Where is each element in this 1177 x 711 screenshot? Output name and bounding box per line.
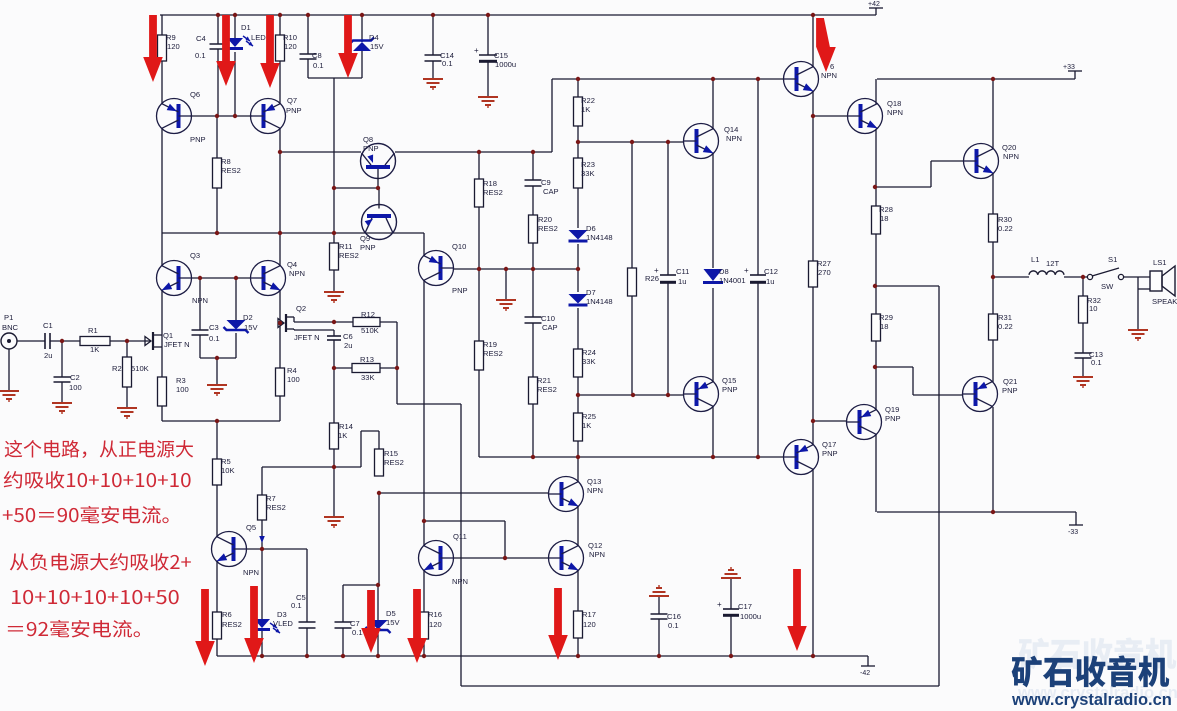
svg-text:C3: C3 bbox=[209, 323, 219, 332]
svg-text:Q3: Q3 bbox=[190, 251, 200, 260]
svg-text:33K: 33K bbox=[581, 169, 595, 178]
svg-text:1N4148: 1N4148 bbox=[586, 233, 613, 242]
svg-text:LS1: LS1 bbox=[1153, 258, 1167, 267]
svg-text:R1: R1 bbox=[88, 326, 98, 335]
svg-text:PNP: PNP bbox=[885, 414, 901, 423]
svg-text:C11: C11 bbox=[676, 267, 689, 276]
svg-text:Q13: Q13 bbox=[587, 477, 601, 486]
svg-text:PNP: PNP bbox=[452, 286, 468, 295]
svg-text:R10: R10 bbox=[283, 33, 297, 42]
svg-text:C4: C4 bbox=[196, 34, 206, 43]
svg-text:Q7: Q7 bbox=[287, 96, 297, 105]
svg-text:15V: 15V bbox=[386, 618, 400, 627]
svg-text:R24: R24 bbox=[582, 348, 596, 357]
svg-text:Q17: Q17 bbox=[822, 440, 836, 449]
svg-text:Q6: Q6 bbox=[190, 90, 200, 99]
svg-text:Q18: Q18 bbox=[887, 99, 901, 108]
svg-text:120: 120 bbox=[167, 42, 180, 51]
svg-text:C10: C10 bbox=[541, 314, 555, 323]
svg-text:Q10: Q10 bbox=[452, 242, 466, 251]
svg-text:D5: D5 bbox=[386, 609, 396, 618]
svg-text:RES2: RES2 bbox=[221, 166, 241, 175]
svg-text:VLED: VLED bbox=[273, 619, 293, 628]
svg-text:C8: C8 bbox=[312, 51, 322, 60]
svg-text:R18: R18 bbox=[483, 179, 497, 188]
svg-text:RES2: RES2 bbox=[483, 349, 503, 358]
svg-text:Q19: Q19 bbox=[885, 405, 899, 414]
svg-text:10K: 10K bbox=[221, 466, 235, 475]
svg-text:P1: P1 bbox=[4, 313, 13, 322]
svg-text:33K: 33K bbox=[361, 373, 375, 382]
svg-text:270: 270 bbox=[818, 268, 831, 277]
svg-text:NPN: NPN bbox=[587, 486, 603, 495]
svg-text:1N4001: 1N4001 bbox=[719, 276, 746, 285]
svg-text:+: + bbox=[717, 600, 722, 609]
svg-text:D3: D3 bbox=[277, 610, 287, 619]
svg-text:R19: R19 bbox=[483, 340, 497, 349]
svg-text:15V: 15V bbox=[244, 323, 258, 332]
svg-text:RES2: RES2 bbox=[339, 251, 359, 260]
svg-text:Q5: Q5 bbox=[246, 523, 256, 532]
svg-text:R7: R7 bbox=[266, 494, 276, 503]
svg-text:6: 6 bbox=[830, 62, 834, 71]
svg-text:NPN: NPN bbox=[452, 577, 468, 586]
svg-text:-42: -42 bbox=[860, 670, 870, 677]
svg-text:120: 120 bbox=[284, 42, 297, 51]
svg-text:CAP: CAP bbox=[543, 187, 559, 196]
svg-text:R26: R26 bbox=[645, 274, 659, 283]
svg-text:2u: 2u bbox=[44, 351, 52, 360]
svg-text:RES2: RES2 bbox=[222, 620, 242, 629]
svg-text:C15: C15 bbox=[494, 51, 508, 60]
svg-text:1K: 1K bbox=[338, 431, 347, 440]
svg-text:JFET N: JFET N bbox=[164, 340, 190, 349]
svg-text:R14: R14 bbox=[339, 422, 353, 431]
svg-text:R22: R22 bbox=[581, 96, 595, 105]
svg-text:R6: R6 bbox=[222, 610, 232, 619]
svg-text:0.1: 0.1 bbox=[442, 59, 453, 68]
svg-text:NPN: NPN bbox=[192, 296, 208, 305]
svg-text:33K: 33K bbox=[582, 357, 596, 366]
svg-text:NPN: NPN bbox=[1003, 152, 1019, 161]
svg-text:0.1: 0.1 bbox=[291, 601, 302, 610]
svg-text:NPN: NPN bbox=[726, 134, 742, 143]
svg-text:R23: R23 bbox=[581, 160, 595, 169]
svg-text:RES2: RES2 bbox=[266, 503, 286, 512]
svg-text:NPN: NPN bbox=[589, 550, 605, 559]
svg-text:0.22: 0.22 bbox=[998, 224, 1013, 233]
svg-text:R29: R29 bbox=[879, 313, 893, 322]
svg-text:BNC: BNC bbox=[2, 323, 19, 332]
svg-text:C17: C17 bbox=[738, 602, 752, 611]
svg-text:R8: R8 bbox=[221, 157, 231, 166]
svg-text:PNP: PNP bbox=[286, 106, 302, 115]
svg-text:R30: R30 bbox=[998, 215, 1012, 224]
svg-text:R25: R25 bbox=[582, 412, 596, 421]
svg-text:C2: C2 bbox=[70, 373, 80, 382]
svg-text:D6: D6 bbox=[586, 224, 596, 233]
svg-text:12T: 12T bbox=[1046, 259, 1059, 268]
svg-text:R15: R15 bbox=[384, 449, 398, 458]
svg-text:R4: R4 bbox=[287, 366, 297, 375]
svg-text:D4: D4 bbox=[369, 33, 379, 42]
svg-text:RES2: RES2 bbox=[384, 458, 404, 467]
svg-text:1u: 1u bbox=[678, 277, 686, 286]
svg-text:D2: D2 bbox=[243, 313, 253, 322]
svg-text:PNP: PNP bbox=[190, 135, 206, 144]
svg-text:+42: +42 bbox=[868, 1, 880, 8]
svg-text:Q20: Q20 bbox=[1002, 143, 1016, 152]
svg-text:510K: 510K bbox=[131, 364, 149, 373]
svg-text:R17: R17 bbox=[582, 610, 596, 619]
svg-text:PNP: PNP bbox=[722, 385, 738, 394]
svg-text:1u: 1u bbox=[766, 277, 774, 286]
svg-text:R13: R13 bbox=[360, 355, 374, 364]
svg-text:510K: 510K bbox=[361, 326, 379, 335]
svg-text:Q12: Q12 bbox=[588, 541, 602, 550]
svg-text:PNP: PNP bbox=[1002, 386, 1018, 395]
svg-text:100: 100 bbox=[176, 385, 189, 394]
svg-text:NPN: NPN bbox=[243, 568, 259, 577]
svg-text:S1: S1 bbox=[1108, 255, 1117, 264]
svg-text:L1: L1 bbox=[1031, 255, 1039, 264]
svg-text:C1: C1 bbox=[43, 321, 53, 330]
svg-text:0.1: 0.1 bbox=[313, 61, 324, 70]
svg-text:0.1: 0.1 bbox=[209, 334, 220, 343]
svg-text:Q4: Q4 bbox=[287, 260, 297, 269]
svg-text:C9: C9 bbox=[541, 178, 551, 187]
svg-text:0.1: 0.1 bbox=[195, 51, 206, 60]
svg-text:JFET N: JFET N bbox=[294, 333, 320, 342]
svg-text:RES2: RES2 bbox=[483, 188, 503, 197]
svg-text:D8: D8 bbox=[719, 267, 729, 276]
svg-text:Q21: Q21 bbox=[1003, 377, 1017, 386]
svg-text:1K: 1K bbox=[582, 421, 591, 430]
svg-text:Q14: Q14 bbox=[724, 125, 738, 134]
svg-text:0.1: 0.1 bbox=[352, 628, 363, 637]
svg-text:PNP: PNP bbox=[360, 243, 376, 252]
svg-text:+: + bbox=[744, 266, 749, 275]
svg-text:100: 100 bbox=[287, 375, 300, 384]
svg-text:0.1: 0.1 bbox=[1091, 358, 1102, 367]
svg-text:Q15: Q15 bbox=[722, 376, 736, 385]
svg-text:RES2: RES2 bbox=[538, 224, 558, 233]
svg-text:RES2: RES2 bbox=[537, 385, 557, 394]
svg-text:D7: D7 bbox=[586, 288, 596, 297]
svg-text:0.1: 0.1 bbox=[668, 621, 679, 630]
svg-text:1K: 1K bbox=[90, 345, 99, 354]
svg-text:R27: R27 bbox=[817, 259, 831, 268]
svg-text:C16: C16 bbox=[667, 612, 681, 621]
svg-text:D1: D1 bbox=[241, 23, 251, 32]
svg-text:C7: C7 bbox=[350, 619, 360, 628]
svg-text:120: 120 bbox=[429, 620, 442, 629]
svg-text:-33: -33 bbox=[1068, 529, 1078, 536]
svg-text:1K: 1K bbox=[581, 105, 590, 114]
svg-text:+: + bbox=[474, 46, 479, 55]
svg-text:120: 120 bbox=[583, 620, 596, 629]
svg-text:R20: R20 bbox=[538, 215, 552, 224]
svg-text:100: 100 bbox=[69, 383, 82, 392]
svg-text:PNP: PNP bbox=[822, 449, 838, 458]
svg-text:1000u: 1000u bbox=[740, 612, 761, 621]
svg-text:Q11: Q11 bbox=[453, 532, 467, 541]
svg-text:R9: R9 bbox=[166, 33, 176, 42]
svg-text:NPN: NPN bbox=[821, 71, 837, 80]
svg-text:R5: R5 bbox=[221, 457, 231, 466]
svg-text:www.crystalradio.cn: www.crystalradio.cn bbox=[1011, 691, 1172, 709]
svg-text:R16: R16 bbox=[428, 610, 442, 619]
svg-text:18: 18 bbox=[880, 322, 888, 331]
svg-text:SW: SW bbox=[1101, 282, 1114, 291]
svg-text:Q8: Q8 bbox=[363, 135, 373, 144]
svg-text:PNP: PNP bbox=[363, 144, 379, 153]
svg-text:CAP: CAP bbox=[542, 323, 558, 332]
svg-text:2u: 2u bbox=[344, 341, 352, 350]
svg-text:R2: R2 bbox=[112, 364, 122, 373]
svg-text:Q9: Q9 bbox=[360, 234, 370, 243]
svg-text:SPEAKE: SPEAKE bbox=[1152, 297, 1177, 306]
svg-text:R12: R12 bbox=[361, 310, 375, 319]
svg-text:+33: +33 bbox=[1063, 64, 1075, 71]
svg-text:R21: R21 bbox=[537, 376, 551, 385]
svg-text:R31: R31 bbox=[998, 313, 1012, 322]
svg-text:Q1: Q1 bbox=[163, 331, 173, 340]
svg-text:LED: LED bbox=[251, 33, 266, 42]
svg-text:1000u: 1000u bbox=[495, 60, 516, 69]
svg-text:15V: 15V bbox=[370, 42, 384, 51]
svg-text:Q2: Q2 bbox=[296, 304, 306, 313]
svg-text:R3: R3 bbox=[176, 376, 186, 385]
svg-text:R11: R11 bbox=[339, 242, 352, 251]
svg-text:18: 18 bbox=[880, 214, 888, 223]
svg-text:C6: C6 bbox=[343, 332, 353, 341]
svg-text:1N4148: 1N4148 bbox=[586, 297, 613, 306]
svg-text:10: 10 bbox=[1089, 304, 1097, 313]
svg-text:0.22: 0.22 bbox=[998, 322, 1013, 331]
svg-text:NPN: NPN bbox=[289, 269, 305, 278]
svg-text:C12: C12 bbox=[764, 267, 778, 276]
svg-text:NPN: NPN bbox=[887, 108, 903, 117]
svg-text:R28: R28 bbox=[879, 205, 893, 214]
